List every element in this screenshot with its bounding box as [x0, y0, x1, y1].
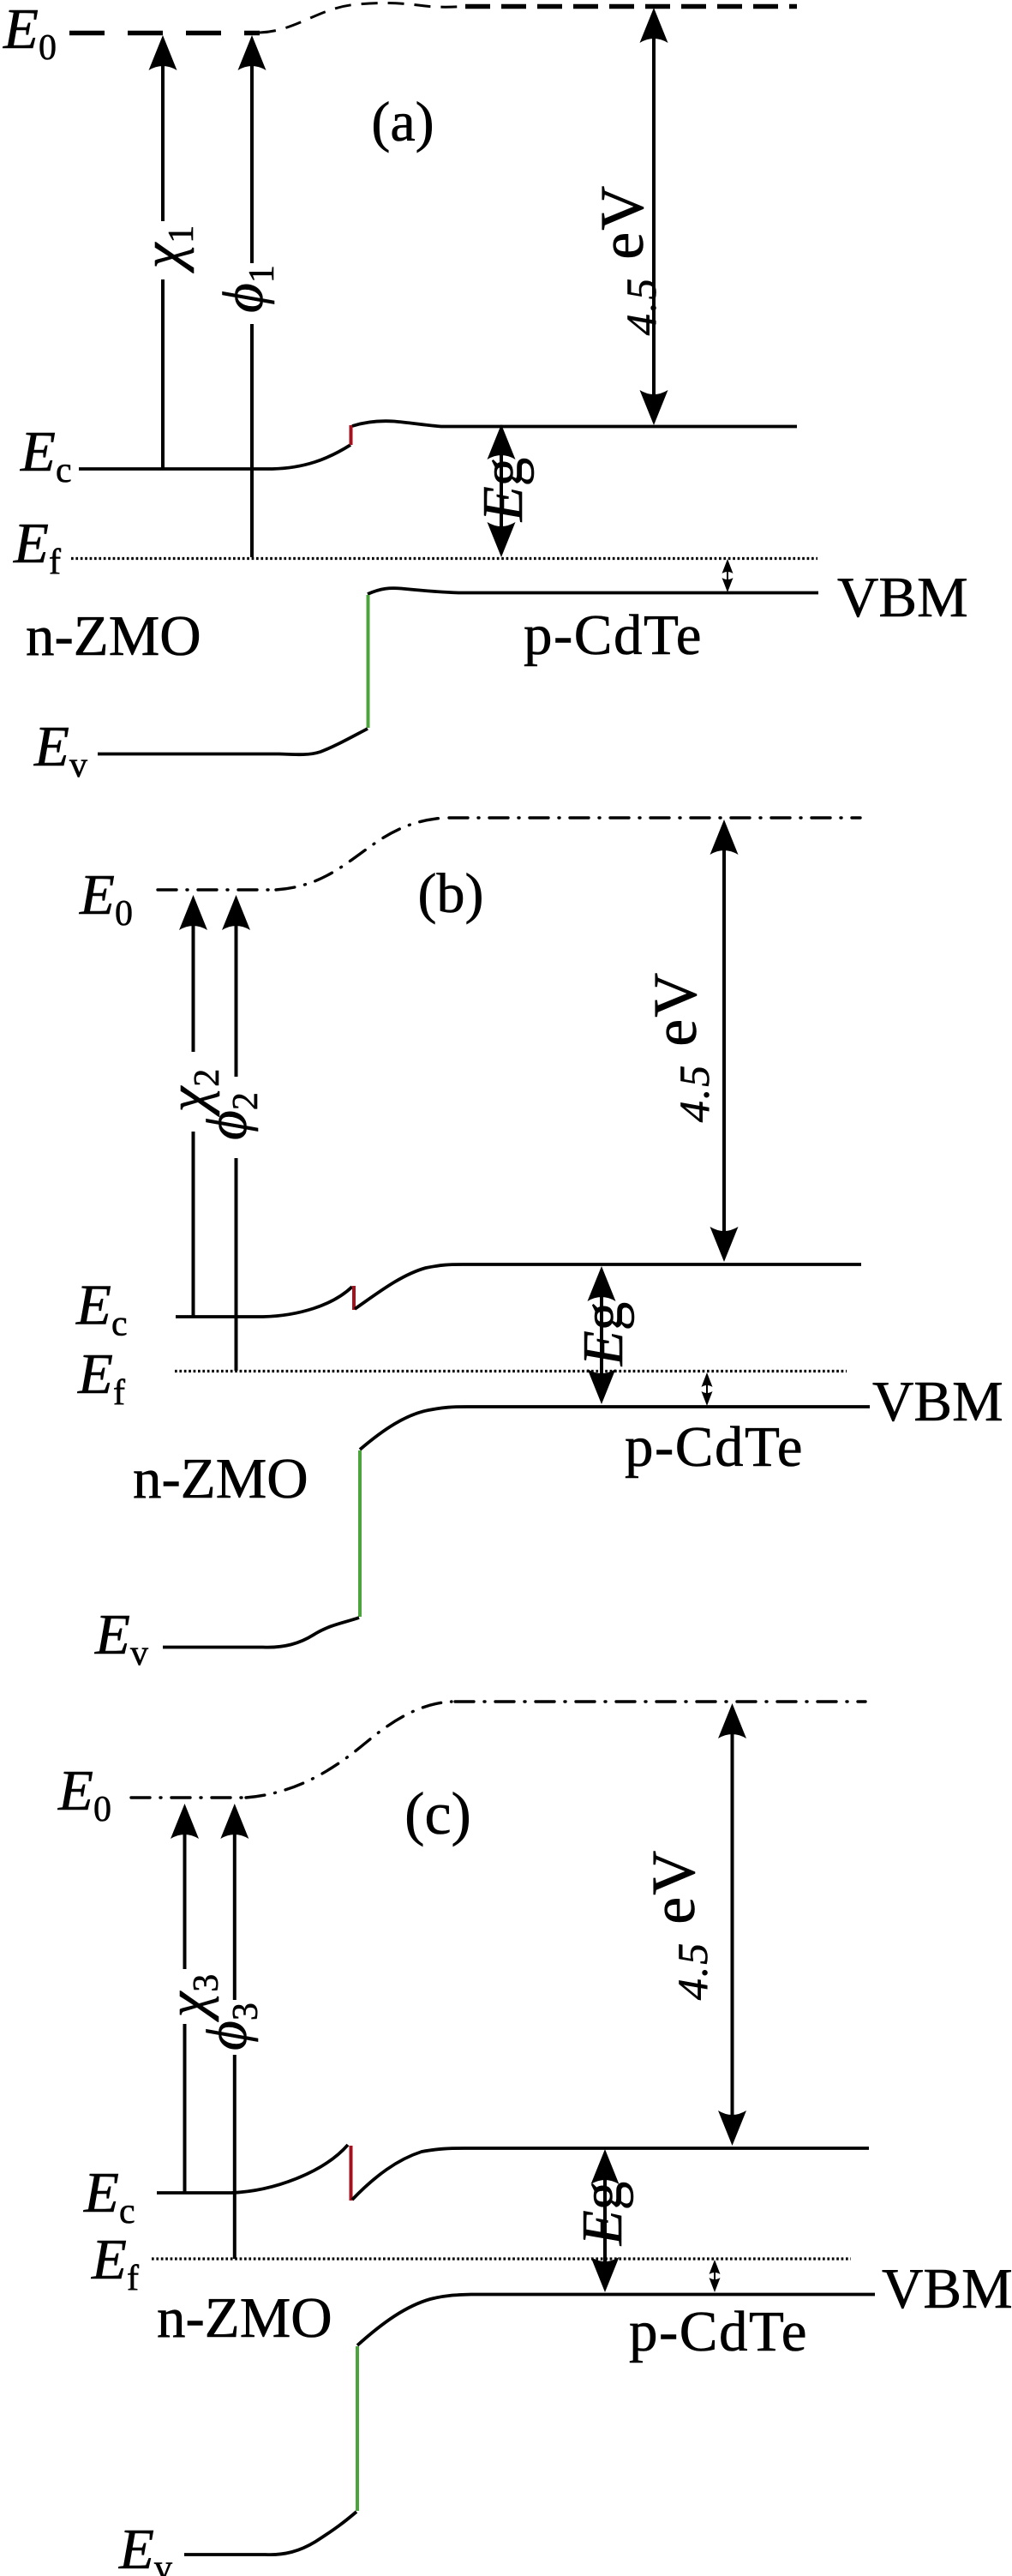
arrow Eg (c): [591, 2149, 620, 2292]
wire E0 vacuum transition curve (b): [276, 818, 445, 890]
svg-text:Ef: Ef: [91, 2228, 139, 2298]
svg-text:n-ZMO: n-ZMO: [157, 2286, 332, 2350]
arrow phi3 (c): [220, 1804, 249, 2259]
arrow 4.5 eV (b): [710, 820, 739, 1262]
svg-text:(b): (b): [418, 862, 484, 925]
svg-text:Ev: Ev: [118, 2518, 172, 2576]
node green valence band offset (b): [358, 1450, 362, 1617]
wire E0 vacuum level ZMO side dash-dot (c): [131, 1796, 246, 1798]
node red conduction band cliff (c): [350, 2146, 353, 2201]
svg-text:4.5 eV: 4.5 eV: [588, 184, 665, 335]
wire Ec CdTe (a): [352, 421, 797, 426]
svg-text:Ef: Ef: [77, 1342, 125, 1413]
svg-text:n-ZMO: n-ZMO: [133, 1447, 308, 1510]
wire Ev ZMO valence band (c): [184, 2512, 356, 2555]
svg-text:Ec: Ec: [83, 2161, 135, 2231]
wire E0 vacuum level CdTe side dash-dot (b): [449, 816, 860, 819]
svg-text:Ev: Ev: [33, 715, 87, 785]
svg-text:4.5 eV: 4.5 eV: [641, 971, 718, 1122]
arrow Eg (a): [488, 424, 516, 557]
wire Ec ZMO flat (b): [176, 1287, 352, 1317]
wire VBM CdTe valence band (a): [368, 588, 818, 594]
svg-text:Eg: Eg: [571, 2182, 634, 2246]
svg-text:Ec: Ec: [20, 420, 72, 490]
wire Ec CdTe (c): [352, 2148, 869, 2200]
svg-text:E0: E0: [79, 863, 133, 934]
svg-text:Ec: Ec: [75, 1274, 128, 1344]
svg-text:ϕ1: ϕ1: [212, 265, 282, 313]
wire E0 vacuum transition curve (c): [246, 1702, 452, 1798]
wire Ef fermi dotted (b): [175, 1370, 847, 1372]
wire Ec ZMO flat (c): [157, 2145, 348, 2193]
wire Ev ZMO valence band (b): [163, 1618, 359, 1648]
arrow Eg (b): [588, 1266, 616, 1404]
svg-text:p-CdTe: p-CdTe: [625, 1415, 804, 1479]
svg-text:E0: E0: [3, 0, 57, 68]
arrow small Ef-VBM (c): [710, 2260, 721, 2292]
wire VBM CdTe valence band (c): [357, 2295, 875, 2346]
arrow chi1 electron affinity: [149, 35, 177, 469]
wire E0 vacuum level ZMO side (dashed): [69, 31, 260, 36]
svg-text:n-ZMO: n-ZMO: [26, 604, 201, 668]
svg-text:VBM: VBM: [872, 1370, 1003, 1433]
svg-text:χ2: χ2: [157, 1069, 227, 1117]
wire Ec ZMO flat (a): [79, 445, 350, 469]
arrow chi2 (b): [179, 895, 207, 1317]
wire E0 vacuum level transition curve: [260, 3, 464, 33]
node red conduction band offset tick (a): [350, 425, 353, 445]
arrow 4.5 eV (c): [718, 1703, 746, 2146]
arrow 4.5 eV (a): [640, 8, 668, 425]
wire Ev ZMO valence band (a): [98, 729, 368, 754]
wire Ef fermi level dotted (a): [71, 557, 817, 560]
svg-text:Eg: Eg: [572, 1302, 635, 1366]
wire Ef fermi dotted (c): [152, 2257, 851, 2260]
svg-text:p-CdTe: p-CdTe: [629, 2300, 808, 2363]
wire VBM CdTe valence band (b): [360, 1407, 870, 1450]
node red conduction band cliff (b): [352, 1286, 356, 1310]
wire Ec CdTe (b): [355, 1264, 861, 1309]
wire E0 vacuum level CdTe side dash-dot (c): [455, 1700, 865, 1702]
svg-text:(c): (c): [404, 1781, 471, 1847]
arrow chi3 (c): [171, 1804, 199, 2193]
wire E0 vacuum level CdTe side (dashed): [465, 4, 797, 9]
svg-text:E0: E0: [57, 1759, 111, 1829]
svg-text:χ1: χ1: [131, 225, 201, 273]
arrow phi1 work function: [238, 35, 266, 557]
svg-text:p-CdTe: p-CdTe: [524, 603, 703, 667]
node green valence band offset (a): [367, 595, 370, 728]
arrow small Ef-VBM (a): [722, 559, 734, 592]
svg-text:4.5 eV: 4.5 eV: [639, 1849, 716, 2000]
wire E0 vacuum level ZMO side dash-dot (b): [158, 888, 276, 891]
svg-text:χ3: χ3: [156, 1974, 226, 2022]
arrow phi2 (b): [222, 895, 250, 1371]
svg-text:Ef: Ef: [13, 512, 61, 582]
svg-text:VBM: VBM: [882, 2257, 1012, 2321]
svg-text:Ev: Ev: [94, 1603, 148, 1673]
svg-text:Eg: Eg: [471, 458, 535, 522]
svg-text:(a): (a): [371, 91, 434, 153]
arrow small Ef-VBM (b): [702, 1372, 713, 1406]
svg-text:VBM: VBM: [837, 566, 968, 629]
node green valence band offset (c): [356, 2346, 359, 2511]
